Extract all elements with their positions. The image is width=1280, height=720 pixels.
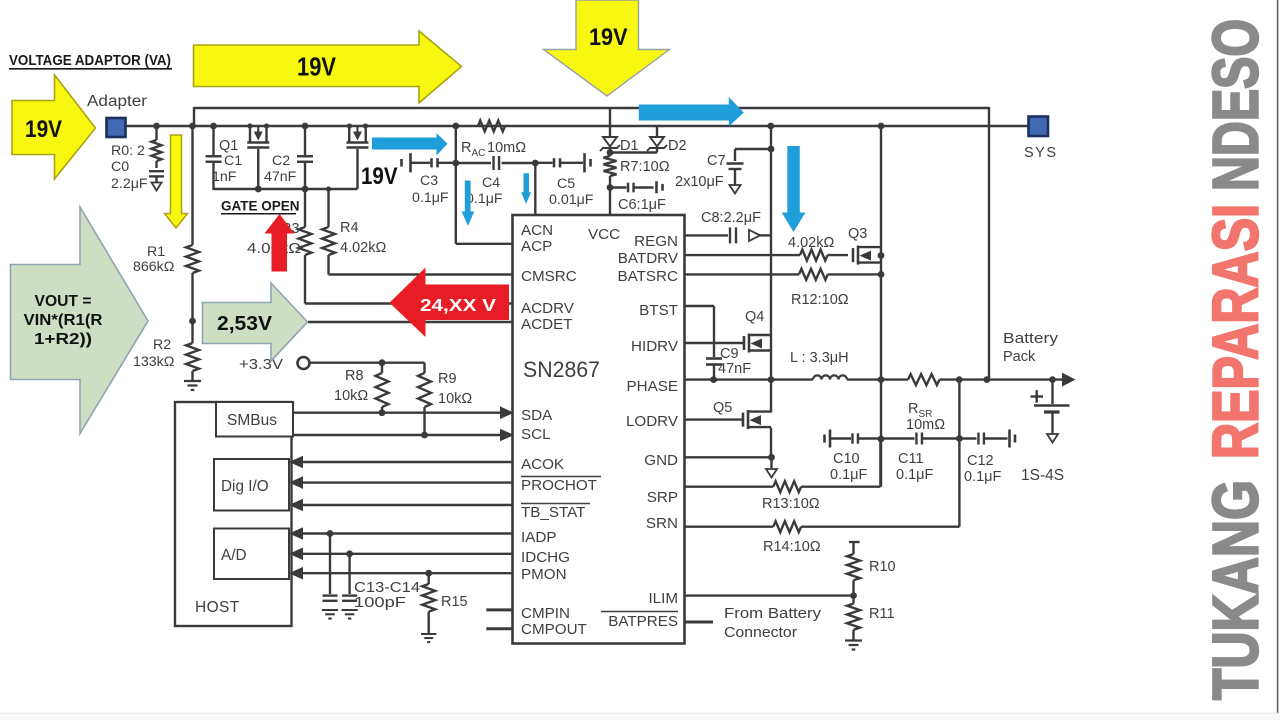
svg-text:19V: 19V bbox=[361, 163, 398, 190]
transistor Q5 bbox=[742, 413, 745, 427]
svg-text:HIDRV: HIDRV bbox=[631, 338, 679, 355]
svg-text:R4: R4 bbox=[340, 220, 359, 236]
svg-text:GND: GND bbox=[644, 452, 678, 469]
capacitor C1 bbox=[212, 126, 214, 155]
svg-text:BATSRC: BATSRC bbox=[618, 268, 679, 285]
capacitor C7 bbox=[735, 148, 771, 150]
SYS terminal square bbox=[1029, 117, 1049, 137]
resistor R4 bbox=[327, 189, 329, 227]
svg-text:0.1μF: 0.1μF bbox=[964, 469, 1002, 485]
svg-text:Dig I/O: Dig I/O bbox=[221, 478, 269, 495]
capacitor C13 bbox=[329, 534, 331, 595]
wire: BTST to C9 bbox=[685, 305, 715, 307]
svg-text:0.1μF: 0.1μF bbox=[896, 467, 934, 483]
CMPIN/CMPOUT stubs bbox=[486, 608, 512, 611]
capacitor C2 bbox=[304, 126, 306, 155]
resistor R12 on BATSRC bbox=[685, 273, 800, 275]
resistor R9 bbox=[423, 363, 425, 373]
svg-text:R1: R1 bbox=[147, 244, 165, 260]
svg-text:SMBus: SMBus bbox=[227, 412, 277, 429]
svg-text:C5: C5 bbox=[557, 176, 575, 192]
svg-text:LODRV: LODRV bbox=[626, 413, 679, 430]
svg-text:R11: R11 bbox=[869, 606, 895, 622]
svg-text:ACDRV: ACDRV bbox=[521, 300, 575, 317]
yellow arrow 19V horizontal bbox=[194, 31, 462, 103]
resistor R7 bbox=[609, 149, 611, 157]
wire : bus drop to D1 at x=610 bbox=[609, 107, 611, 138]
arrowhead to battery pack bbox=[1062, 373, 1076, 387]
svg-text:R: R bbox=[908, 401, 918, 417]
wire: ACP from left kelvin tap bbox=[455, 163, 457, 244]
capacitor C4 bbox=[456, 162, 491, 164]
red arrow GATE OPEN (up) bbox=[265, 214, 295, 272]
yellow arrow 19V left bbox=[12, 75, 96, 179]
svg-text:C4: C4 bbox=[482, 175, 500, 191]
IC SN2867 box bbox=[513, 215, 685, 644]
wire: kelvin taps and sense line y=163 bbox=[455, 126, 457, 163]
svg-text:0.1μF: 0.1μF bbox=[830, 467, 868, 483]
svg-text:REGN: REGN bbox=[634, 233, 678, 250]
svg-text:R: R bbox=[461, 140, 471, 156]
+3.3V node bbox=[298, 357, 310, 369]
svg-text:1+R2)): 1+R2)) bbox=[34, 331, 92, 348]
wire: vertical rail x=881 (Q3 chain) bbox=[880, 126, 882, 487]
resistor RSR inline bbox=[908, 374, 940, 385]
svg-text:CMSRC: CMSRC bbox=[521, 268, 577, 285]
resistor 4.02k at Q3 gate bbox=[685, 254, 801, 256]
svg-text:TUKANG: TUKANG bbox=[1200, 480, 1272, 700]
SMBus box bbox=[216, 402, 293, 437]
svg-text:R9: R9 bbox=[438, 371, 457, 387]
svg-text:R12:10Ω: R12:10Ω bbox=[791, 292, 849, 308]
red arrow 24,XX V (left) bbox=[390, 268, 510, 338]
svg-text:C1: C1 bbox=[224, 153, 242, 169]
svg-text:C10: C10 bbox=[833, 451, 860, 467]
wire: gate bus y=189 bbox=[214, 188, 358, 190]
svg-text:1nF: 1nF bbox=[212, 169, 237, 185]
svg-text:VOLTAGE ADAPTOR (VA): VOLTAGE ADAPTOR (VA) bbox=[9, 52, 171, 69]
wire: CMSRC from R4 bbox=[329, 273, 514, 275]
diode D2 bbox=[656, 126, 658, 138]
svg-text:C7: C7 bbox=[707, 153, 726, 169]
wire: HIDRV bbox=[685, 342, 745, 344]
wire: PROCHOT bbox=[302, 481, 513, 483]
capacitor C5 (floating pair) bbox=[535, 162, 552, 164]
svg-text:SN2867: SN2867 bbox=[523, 357, 600, 382]
svg-text:Q3: Q3 bbox=[848, 226, 867, 242]
svg-text:GATE OPEN: GATE OPEN bbox=[221, 199, 300, 214]
svg-text:R8: R8 bbox=[345, 368, 364, 384]
svg-text:IADP: IADP bbox=[521, 529, 556, 546]
svg-text:47nF: 47nF bbox=[264, 169, 297, 185]
resistor R13 on SRP bbox=[685, 486, 774, 488]
svg-text:A/D: A/D bbox=[221, 547, 247, 564]
svg-text:10kΩ: 10kΩ bbox=[334, 388, 368, 404]
svg-text:VOUT =: VOUT = bbox=[35, 293, 92, 310]
svg-text:PMON: PMON bbox=[521, 566, 567, 583]
svg-text:R0: 2: R0: 2 bbox=[111, 143, 145, 159]
Adapter terminal square bbox=[107, 118, 126, 137]
inductor L 3.3uH bbox=[813, 375, 847, 379]
svg-text:PROCHOT: PROCHOT bbox=[521, 477, 597, 494]
svg-text:4.02kΩ: 4.02kΩ bbox=[340, 240, 386, 256]
svg-text:R13:10Ω: R13:10Ω bbox=[762, 496, 820, 512]
svg-text:D2: D2 bbox=[668, 138, 687, 154]
svg-text:4.02kΩ: 4.02kΩ bbox=[788, 235, 834, 251]
capacitor C3 (floating pair) bbox=[400, 159, 403, 167]
resistor R1 bbox=[191, 126, 193, 245]
green arrow 2,53V bbox=[203, 283, 308, 361]
svg-text:From Battery: From Battery bbox=[724, 605, 822, 622]
svg-text:NDESO: NDESO bbox=[1200, 19, 1272, 191]
blue down arrow (4.02k) bbox=[782, 146, 806, 232]
wire: ACDRV from R3 bbox=[305, 302, 513, 304]
Dig I/O box bbox=[214, 459, 289, 511]
resistor R2 bbox=[186, 343, 199, 371]
wire: D2 to D1 bottom bbox=[610, 151, 657, 153]
right thin frame line bbox=[1277, 0, 1279, 720]
wire: PMON bbox=[302, 572, 513, 574]
svg-text:Q5: Q5 bbox=[713, 400, 732, 416]
svg-text:CMPOUT: CMPOUT bbox=[521, 621, 587, 638]
capacitor C9 bbox=[706, 357, 722, 360]
node dots x=771 bbox=[768, 376, 775, 383]
battery symbol bbox=[1031, 390, 1044, 403]
svg-text:C12: C12 bbox=[967, 453, 994, 469]
wire: BATPRES stub bbox=[685, 621, 714, 624]
svg-text:C13-C14: C13-C14 bbox=[354, 580, 420, 596]
svg-text:SCL: SCL bbox=[521, 426, 551, 443]
svg-text:19V: 19V bbox=[25, 116, 63, 143]
svg-text:10kΩ: 10kΩ bbox=[438, 391, 472, 407]
transistor Q2 bbox=[348, 126, 350, 142]
svg-text:1S-4S: 1S-4S bbox=[1021, 467, 1064, 484]
svg-text:2x10μF: 2x10μF bbox=[675, 174, 724, 190]
blue small down arrow left of C4 bbox=[462, 181, 475, 227]
wire : bus drop at x=194 bbox=[193, 107, 195, 126]
svg-text:REPARASI: REPARASI bbox=[1200, 204, 1272, 459]
svg-text:Connector: Connector bbox=[724, 624, 797, 641]
svg-text:HOST: HOST bbox=[195, 599, 240, 616]
capacitor C10 line y=439 bbox=[823, 435, 826, 443]
resistor R11 bbox=[852, 596, 854, 604]
svg-text:AC: AC bbox=[472, 148, 486, 159]
svg-text:L : 3.3μH: L : 3.3μH bbox=[790, 350, 849, 366]
capacitor C6 bbox=[610, 186, 627, 188]
svg-text:BTST: BTST bbox=[639, 302, 678, 319]
wire: SCL bbox=[293, 434, 501, 436]
svg-text:BATPRES: BATPRES bbox=[608, 613, 678, 630]
resistor R0 + capacitor C0 branch bbox=[155, 126, 157, 140]
svg-text:C9: C9 bbox=[720, 346, 739, 362]
svg-text:R2: R2 bbox=[153, 337, 171, 353]
svg-text:0.1μF: 0.1μF bbox=[466, 191, 503, 207]
blue small down arrow right of C4 bbox=[521, 173, 531, 204]
svg-text:SRN: SRN bbox=[646, 515, 678, 532]
resistor R3 bbox=[304, 189, 306, 227]
svg-text:2.2μF: 2.2μF bbox=[111, 176, 148, 192]
svg-text:24,XX V: 24,XX V bbox=[420, 295, 496, 315]
capacitor C14 bbox=[348, 554, 350, 594]
wire: vertical SYS-side rail x=771 bbox=[770, 126, 772, 328]
svg-text:19V: 19V bbox=[589, 24, 628, 51]
svg-text:0.1μF: 0.1μF bbox=[412, 190, 449, 206]
svg-text:R14:10Ω: R14:10Ω bbox=[763, 539, 821, 555]
wire: ACDET from divider tap bbox=[308, 321, 513, 323]
svg-text:ACN: ACN bbox=[521, 222, 553, 239]
wire : bus drop to battery node x=989 bbox=[988, 107, 990, 380]
bottom faint strip bbox=[0, 714, 1280, 720]
wire: SDA bbox=[293, 412, 501, 414]
svg-text:ACOK: ACOK bbox=[521, 456, 564, 473]
svg-text:Pack: Pack bbox=[1003, 349, 1036, 365]
svg-text:866kΩ: 866kΩ bbox=[133, 259, 174, 275]
svg-text:R7:10Ω: R7:10Ω bbox=[620, 159, 670, 175]
svg-text:C11: C11 bbox=[898, 451, 924, 467]
wire : top bus y=108 bbox=[194, 107, 989, 109]
svg-text:C8:2.2μF: C8:2.2μF bbox=[701, 210, 761, 226]
svg-text:CMPIN: CMPIN bbox=[521, 605, 570, 622]
resistor R10 bbox=[849, 541, 860, 543]
wire: TB_STAT bbox=[302, 504, 513, 506]
blue arrow mid (19V to C3) bbox=[372, 133, 448, 156]
green arrow VOUT formula bbox=[11, 207, 149, 434]
svg-text:C2: C2 bbox=[272, 153, 290, 169]
yellow arrow 19V down (top) bbox=[544, 0, 670, 96]
capacitor C12 bbox=[959, 437, 976, 439]
svg-text:Adapter: Adapter bbox=[87, 93, 147, 110]
svg-text:47nF: 47nF bbox=[718, 361, 751, 377]
svg-text:IDCHG: IDCHG bbox=[521, 549, 570, 566]
diode D1 bbox=[603, 137, 617, 147]
svg-text:TB_STAT: TB_STAT bbox=[521, 504, 585, 521]
svg-text:+3.3V: +3.3V bbox=[239, 356, 283, 373]
svg-text:19V: 19V bbox=[297, 52, 337, 82]
svg-text:R15: R15 bbox=[441, 594, 468, 610]
wire: ILIM to divider bbox=[685, 594, 854, 596]
svg-text:Battery: Battery bbox=[1003, 331, 1059, 347]
A/D box bbox=[214, 529, 289, 580]
svg-text:SRP: SRP bbox=[647, 489, 678, 506]
svg-text:100pF: 100pF bbox=[354, 595, 406, 611]
svg-text:133kΩ: 133kΩ bbox=[133, 354, 174, 370]
svg-text:Q4: Q4 bbox=[745, 309, 764, 325]
ground below R2 bbox=[184, 381, 201, 390]
node: adapter junction dots on main rail bbox=[153, 123, 160, 130]
svg-text:BATDRV: BATDRV bbox=[618, 250, 679, 267]
resistor R14 on SRN bbox=[685, 526, 774, 528]
svg-text:10mΩ: 10mΩ bbox=[487, 140, 526, 156]
blue arrow top (to SYS) bbox=[639, 97, 744, 127]
wire: PHASE rail y=379.6 bbox=[685, 378, 814, 380]
wire: LODRV bbox=[685, 418, 744, 420]
ground arrow below GND wire bbox=[770, 457, 772, 469]
svg-text:Q1: Q1 bbox=[219, 138, 238, 154]
node VOUT divider bbox=[189, 318, 196, 325]
svg-text:ACP: ACP bbox=[521, 238, 552, 255]
resistor RAC inline on rail bbox=[478, 121, 505, 132]
svg-text:C6:1μF: C6:1μF bbox=[618, 197, 666, 213]
svg-text:ILIM: ILIM bbox=[648, 590, 678, 607]
wire: IADP bbox=[302, 532, 513, 534]
transistor Q4 bbox=[743, 336, 746, 350]
yellow small down arrow bbox=[165, 135, 188, 228]
svg-text:C0: C0 bbox=[111, 159, 129, 175]
capacitor C11 bbox=[915, 433, 917, 445]
svg-text:SDA: SDA bbox=[521, 407, 553, 424]
wire: GND pin bbox=[685, 456, 772, 458]
svg-text:VIN*(R1(R: VIN*(R1(R bbox=[24, 312, 103, 329]
wire : main adapter rail y=126 bbox=[125, 125, 1029, 127]
svg-text:2,53V: 2,53V bbox=[217, 312, 272, 335]
capacitor C8 on REGN bbox=[685, 234, 729, 236]
transistor Q3 bbox=[852, 248, 855, 262]
wire: IDCHG bbox=[302, 553, 513, 555]
svg-text:SYS: SYS bbox=[1024, 145, 1058, 161]
host block bbox=[175, 402, 292, 626]
svg-text:ACDET: ACDET bbox=[521, 316, 572, 333]
svg-text:0.01μF: 0.01μF bbox=[549, 192, 594, 208]
svg-text:10mΩ: 10mΩ bbox=[906, 417, 945, 433]
resistor R15 bbox=[428, 573, 430, 584]
svg-text:PHASE: PHASE bbox=[627, 378, 679, 395]
wire: ACOK bbox=[302, 461, 513, 463]
svg-text:VCC: VCC bbox=[588, 226, 620, 243]
transistor Q1 bbox=[249, 126, 251, 142]
resistor R8 bbox=[381, 363, 383, 373]
svg-text:R10: R10 bbox=[869, 559, 896, 575]
svg-text:C3: C3 bbox=[420, 173, 438, 189]
